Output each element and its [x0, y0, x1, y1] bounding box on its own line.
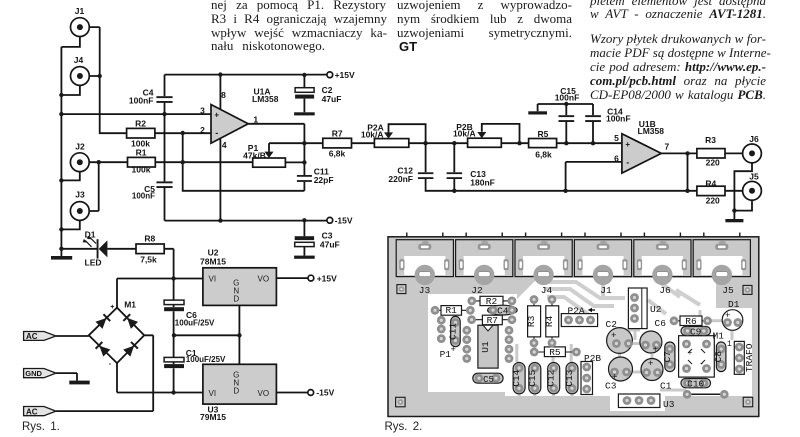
svg-text:M1: M1: [124, 299, 136, 309]
svg-text:AC: AC: [26, 332, 38, 341]
svg-text:6: 6: [614, 154, 619, 164]
svg-text:P1: P1: [440, 349, 452, 360]
svg-text:R7: R7: [332, 128, 343, 138]
svg-text:C5: C5: [483, 375, 494, 385]
svg-text:6,8k: 6,8k: [535, 149, 552, 159]
svg-text:2: 2: [200, 125, 205, 135]
svg-text:LM358: LM358: [638, 126, 665, 136]
svg-text:+15V: +15V: [335, 70, 355, 80]
svg-text:-: -: [215, 128, 218, 138]
svg-text:10k/A: 10k/A: [453, 129, 476, 139]
svg-text:J4: J4: [541, 285, 553, 296]
svg-text:M1: M1: [713, 331, 725, 342]
svg-text:79M15: 79M15: [200, 412, 226, 422]
svg-text:+: +: [611, 331, 616, 341]
svg-text:5: 5: [614, 133, 619, 143]
svg-text:-: -: [699, 360, 704, 369]
svg-text:7,5k: 7,5k: [140, 254, 157, 264]
svg-text:C12: C12: [546, 369, 557, 386]
svg-text:GND: GND: [25, 369, 42, 378]
svg-text:220: 220: [706, 157, 720, 167]
svg-text:U3: U3: [663, 399, 675, 410]
svg-text:R2: R2: [486, 296, 498, 307]
svg-text:J3: J3: [419, 285, 431, 296]
svg-text:R2: R2: [135, 118, 146, 128]
svg-text:+: +: [451, 345, 456, 355]
svg-text:R4: R4: [705, 179, 716, 189]
svg-text:J6: J6: [749, 134, 759, 144]
svg-text:TRAFO: TRAFO: [744, 343, 755, 372]
svg-text:10k/A: 10k/A: [361, 129, 384, 139]
svg-text:-: -: [109, 361, 112, 368]
svg-text:C4: C4: [497, 306, 509, 317]
svg-text:P2A: P2A: [568, 306, 585, 317]
svg-text:8: 8: [221, 90, 226, 100]
svg-text:220nF: 220nF: [388, 174, 413, 184]
svg-text:1: 1: [253, 114, 258, 124]
svg-text:+: +: [725, 311, 730, 321]
svg-text:100k: 100k: [132, 165, 151, 175]
svg-text:VI: VI: [209, 274, 217, 283]
svg-text:C2: C2: [606, 319, 618, 330]
svg-text:VO: VO: [258, 274, 270, 283]
svg-text:100nF: 100nF: [555, 93, 580, 103]
svg-text:R7: R7: [487, 315, 498, 326]
svg-text:C6: C6: [655, 318, 667, 329]
svg-text:C9: C9: [690, 327, 702, 338]
svg-text:VI: VI: [209, 389, 217, 398]
svg-text:+: +: [653, 345, 658, 355]
svg-text:J1: J1: [75, 6, 85, 16]
svg-text:J3: J3: [75, 189, 85, 199]
svg-text:LED: LED: [85, 258, 102, 268]
svg-text:+15V: +15V: [317, 273, 337, 283]
svg-text:-15V: -15V: [335, 216, 353, 226]
svg-text:C11: C11: [447, 323, 458, 340]
svg-text:LM358: LM358: [252, 94, 279, 104]
svg-text:180nF: 180nF: [470, 177, 495, 187]
svg-text:VO: VO: [258, 389, 270, 398]
svg-text:R6: R6: [685, 316, 697, 327]
svg-text:R3: R3: [526, 315, 537, 327]
svg-text:J2: J2: [75, 142, 85, 152]
svg-text:C8: C8: [713, 351, 724, 363]
svg-text:C7: C7: [662, 351, 673, 362]
svg-text:R3: R3: [705, 135, 716, 145]
svg-text:R5: R5: [549, 347, 561, 358]
svg-text:1: 1: [727, 340, 732, 349]
svg-text:6,8k: 6,8k: [329, 148, 346, 158]
svg-text:R5: R5: [537, 129, 548, 139]
svg-text:+: +: [214, 110, 219, 119]
svg-text:C14: C14: [511, 369, 522, 386]
svg-text:C15: C15: [527, 369, 538, 386]
svg-text:C1: C1: [660, 381, 672, 392]
svg-text:U2: U2: [650, 304, 662, 315]
svg-text:4: 4: [222, 140, 227, 150]
svg-text:R4: R4: [544, 315, 555, 327]
svg-text:-15V: -15V: [316, 388, 334, 398]
svg-text:+: +: [688, 349, 693, 358]
svg-text:D1: D1: [728, 299, 740, 310]
svg-text:J6: J6: [659, 285, 671, 296]
svg-text:D: D: [233, 295, 239, 304]
svg-text:AC: AC: [26, 408, 38, 417]
svg-text:100uF/25V: 100uF/25V: [186, 355, 226, 364]
svg-text:C10: C10: [687, 379, 704, 390]
svg-text:R8: R8: [144, 233, 155, 243]
svg-text:J5: J5: [722, 285, 734, 296]
svg-text:U1: U1: [480, 341, 491, 353]
svg-text:100nF: 100nF: [606, 114, 631, 124]
svg-text:47uF: 47uF: [320, 240, 340, 250]
svg-text:22pF: 22pF: [314, 175, 334, 185]
svg-text:+: +: [612, 373, 617, 383]
svg-text:J4: J4: [74, 55, 84, 65]
svg-text:47k/B: 47k/B: [243, 151, 266, 161]
svg-text:P2B: P2B: [584, 353, 601, 364]
svg-text:R1: R1: [445, 305, 457, 316]
svg-text:J1: J1: [600, 285, 612, 296]
svg-text:78M15: 78M15: [200, 257, 226, 267]
svg-text:3: 3: [200, 106, 205, 116]
svg-text:7: 7: [665, 142, 670, 152]
svg-text:J5: J5: [749, 172, 759, 182]
svg-text:100nF: 100nF: [129, 95, 154, 105]
svg-text:J2: J2: [471, 285, 483, 296]
svg-text:+: +: [625, 140, 630, 149]
svg-text:R1: R1: [136, 148, 147, 158]
svg-text:100nF: 100nF: [132, 191, 155, 200]
svg-text:D: D: [233, 387, 239, 396]
svg-text:+: +: [648, 359, 653, 369]
svg-text:47uF: 47uF: [322, 94, 342, 104]
svg-text:100uF/25V: 100uF/25V: [175, 319, 215, 328]
svg-text:220: 220: [706, 196, 720, 206]
svg-text:D1: D1: [85, 229, 96, 239]
svg-text:+: +: [110, 304, 114, 311]
svg-text:-: -: [626, 157, 629, 167]
svg-text:C13: C13: [564, 369, 575, 386]
